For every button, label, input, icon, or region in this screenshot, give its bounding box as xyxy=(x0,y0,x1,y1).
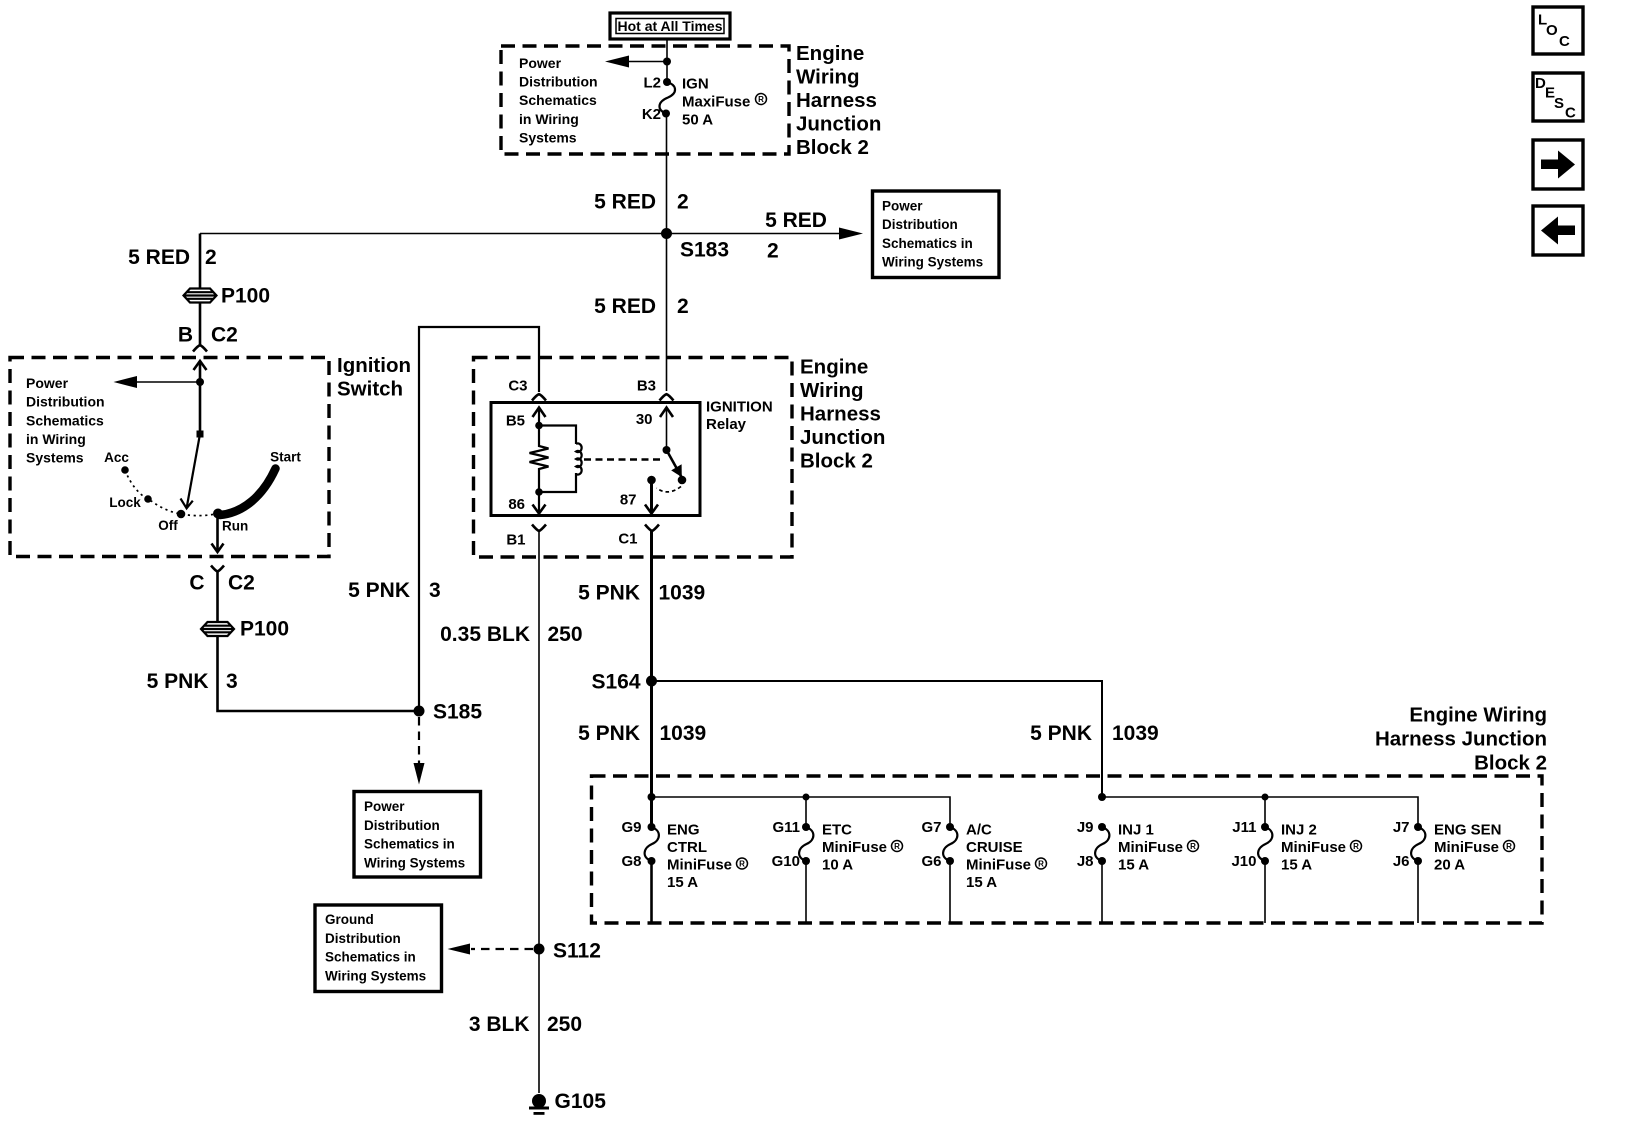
svg-text:Relay: Relay xyxy=(706,416,747,433)
arrow to power distribution reference (inside switch) xyxy=(114,376,201,388)
svg-text:O: O xyxy=(1546,22,1558,39)
wire label 5 PNK 3 (lower left) xyxy=(147,670,238,693)
pin B / connector C2 (upper) xyxy=(178,324,238,347)
node: relay coil top xyxy=(535,422,543,430)
fuse IGN MaxiFuse 50A (element) xyxy=(659,82,675,114)
svg-text:G9: G9 xyxy=(621,819,641,836)
dashed arrow: S112 to ground distribution reference box xyxy=(448,944,534,955)
label: INJ 1 MiniFuse 15 A xyxy=(1118,821,1199,873)
svg-text:3 BLK: 3 BLK xyxy=(469,1013,530,1036)
relay coil actuation link (dashed) xyxy=(584,458,660,461)
wire: P100 down and across to S185 xyxy=(218,636,420,711)
hot-at-all-times box xyxy=(610,13,730,39)
relay switch blade xyxy=(667,450,682,477)
svg-text:ENG: ENG xyxy=(667,821,700,838)
label: A/C CRUISE MiniFuse 15 A xyxy=(966,821,1047,891)
arrow to power distribution reference (left) xyxy=(605,56,667,68)
svg-text:2: 2 xyxy=(677,295,689,318)
svg-text:J10: J10 xyxy=(1231,853,1256,870)
svg-text:15 A: 15 A xyxy=(1118,856,1149,873)
svg-text:15 A: 15 A xyxy=(667,874,698,891)
wire label 5 RED 2 (left branch) xyxy=(128,246,217,269)
svg-text:G7: G7 xyxy=(921,819,941,836)
svg-text:3: 3 xyxy=(226,670,238,693)
relay switch pivot node xyxy=(663,446,671,454)
switch position dot Run xyxy=(213,509,223,519)
svg-text:Block 2: Block 2 xyxy=(800,450,873,473)
switch position dot Lock xyxy=(144,495,152,503)
svg-text:IGNITION: IGNITION xyxy=(706,399,773,416)
fuse ETC MiniFuse 10A xyxy=(799,823,813,923)
relay pin 85 male terminal xyxy=(533,408,546,426)
relay contact 87 node xyxy=(647,476,656,485)
svg-text:10 A: 10 A xyxy=(822,856,853,873)
wire: Run output with arrow to C2-C xyxy=(212,514,224,552)
female terminal B3 xyxy=(660,394,674,400)
label: ETC MiniFuse 10 A xyxy=(822,821,903,873)
label: Engine Wiring Harness Junction Block 2 (relay) xyxy=(800,356,885,473)
wire: relay B1 down (0.35 BLK 250) xyxy=(538,532,540,1094)
bus wire: riser to INJ 2 fuse xyxy=(1264,797,1266,827)
svg-text:Schematics: Schematics xyxy=(519,92,597,108)
previous-page navigation box (left arrow) xyxy=(1533,206,1583,255)
wire: S185 up and across to relay C3 xyxy=(419,327,539,711)
svg-text:5 RED: 5 RED xyxy=(128,246,190,269)
svg-text:Off: Off xyxy=(158,518,178,533)
label: IGNITION Relay xyxy=(706,399,773,434)
svg-text:G6: G6 xyxy=(921,853,941,870)
label: INJ 2 MiniFuse 15 A xyxy=(1281,821,1362,873)
svg-text:Schematics: Schematics xyxy=(26,412,104,428)
ignition switch dashed box xyxy=(10,358,329,557)
svg-text:50 A: 50 A xyxy=(682,111,713,128)
wire label 3 BLK 250 xyxy=(469,1013,582,1036)
svg-text:5 PNK: 5 PNK xyxy=(348,579,410,602)
svg-text:Ignition: Ignition xyxy=(337,354,411,377)
switch position dot Acc xyxy=(121,466,129,474)
svg-text:J11: J11 xyxy=(1232,819,1256,836)
svg-text:250: 250 xyxy=(547,1013,582,1036)
wire label 5 PNK 3 (S185 riser) xyxy=(348,579,441,602)
fuse A/C CRUISE MiniFuse 15A xyxy=(943,823,957,923)
svg-text:5 RED: 5 RED xyxy=(594,191,656,214)
svg-text:Power: Power xyxy=(26,375,69,391)
svg-text:B: B xyxy=(178,324,193,347)
node: bus junction right xyxy=(1098,793,1106,801)
wire: relay C1 down to S164 (5 PNK 1039) xyxy=(650,532,653,682)
svg-text:R: R xyxy=(1353,842,1359,851)
switch wiper square node xyxy=(197,431,204,438)
female terminal C1 xyxy=(645,525,659,532)
wire: S164 down into junction block xyxy=(650,681,653,827)
node: relay coil bottom xyxy=(535,488,543,496)
svg-text:87: 87 xyxy=(620,492,637,509)
label: ENG CTRL MiniFuse 15 A xyxy=(667,821,748,891)
female terminal C3 xyxy=(532,394,546,400)
junction block 2 dashed box (bottom) xyxy=(592,776,1543,923)
svg-text:5 PNK: 5 PNK xyxy=(1030,722,1092,745)
wire label 5 PNK 1039 (right feed) xyxy=(1030,722,1159,745)
fuse INJ 2 MiniFuse 15A xyxy=(1258,823,1272,923)
wire label 5 RED 2 (S183 to relay B3) xyxy=(594,295,689,318)
next-page navigation box (right arrow) xyxy=(1533,140,1583,189)
svg-text:Engine: Engine xyxy=(796,42,864,65)
label: IGN MaxiFuse 50 A xyxy=(682,75,767,128)
svg-text:C2: C2 xyxy=(211,324,238,347)
female terminal B1 xyxy=(532,525,546,532)
svg-text:Schematics in: Schematics in xyxy=(364,837,455,852)
svg-text:250: 250 xyxy=(548,623,583,646)
wire: P100 down to ignition switch C2 pin B xyxy=(199,302,202,345)
svg-text:Power: Power xyxy=(364,799,405,814)
svg-text:R: R xyxy=(1038,860,1044,869)
dashed box: engine wiring harness junction block 2 (fuse block) xyxy=(501,46,789,154)
relay resistor xyxy=(530,426,549,493)
svg-text:S112: S112 xyxy=(553,940,601,963)
svg-text:20 A: 20 A xyxy=(1434,856,1465,873)
svg-text:15 A: 15 A xyxy=(966,874,997,891)
svg-text:R: R xyxy=(1506,842,1512,851)
ignition relay box xyxy=(491,403,700,516)
svg-text:1039: 1039 xyxy=(659,582,706,605)
svg-text:Harness: Harness xyxy=(796,89,877,112)
wire: C2 down to P100 (lower) xyxy=(216,572,219,623)
wire: hot feed into fuse xyxy=(666,39,668,82)
node: junction at switch arrow xyxy=(196,378,204,386)
svg-text:MiniFuse: MiniFuse xyxy=(822,839,887,856)
svg-text:Schematics in: Schematics in xyxy=(882,236,973,251)
node S164 xyxy=(646,676,657,687)
reference text: power distribution schematics in wiring systems xyxy=(519,55,598,145)
svg-text:Harness Junction: Harness Junction xyxy=(1375,728,1547,751)
svg-text:B1: B1 xyxy=(506,532,525,549)
svg-text:B5: B5 xyxy=(506,413,525,430)
svg-text:C1: C1 xyxy=(618,531,637,548)
svg-text:MiniFuse: MiniFuse xyxy=(1434,839,1499,856)
dashed arrow: S185 to power distribution reference box xyxy=(414,717,425,785)
bus wire: right feed to fuses xyxy=(1102,797,1418,827)
bus wire: left feed to fuses xyxy=(652,797,951,827)
svg-text:S164: S164 xyxy=(591,671,640,694)
relay pin 30 male terminal xyxy=(660,408,673,451)
reference box: power distribution schematics in wiring systems (bottom left) xyxy=(354,792,481,878)
fuse INJ 1 MiniFuse 15A xyxy=(1095,823,1109,923)
svg-text:B3: B3 xyxy=(637,378,656,395)
svg-text:J7: J7 xyxy=(1393,819,1410,836)
svg-text:2: 2 xyxy=(767,240,779,263)
svg-text:Wiring: Wiring xyxy=(800,379,864,402)
svg-text:R: R xyxy=(739,860,745,869)
svg-text:Distribution: Distribution xyxy=(26,394,105,410)
wire: S164 branch across and down to junction block xyxy=(652,681,1103,797)
pin C / connector C2 (lower) xyxy=(189,572,255,595)
wire: S183 horizontal run to left branch xyxy=(200,233,667,235)
wire: fuse K2 down to S183 xyxy=(666,114,668,234)
svg-text:R: R xyxy=(1190,842,1196,851)
svg-text:J6: J6 xyxy=(1393,853,1410,870)
svg-text:Lock: Lock xyxy=(109,495,141,510)
svg-text:MiniFuse: MiniFuse xyxy=(667,856,732,873)
svg-text:Systems: Systems xyxy=(519,129,577,145)
svg-text:Distribution: Distribution xyxy=(364,818,440,833)
svg-text:C2: C2 xyxy=(228,572,255,595)
svg-text:INJ 1: INJ 1 xyxy=(1118,821,1154,838)
svg-text:Distribution: Distribution xyxy=(882,217,958,232)
wire label 0.35 BLK 250 xyxy=(440,623,582,646)
svg-text:G11: G11 xyxy=(772,819,800,836)
wire: S183 down to relay B3 xyxy=(666,234,668,392)
svg-text:in Wiring: in Wiring xyxy=(26,431,86,447)
svg-text:J8: J8 xyxy=(1077,853,1094,870)
switch wiper arrow to Off xyxy=(181,434,201,508)
svg-text:Block 2: Block 2 xyxy=(796,136,869,159)
svg-text:Wiring Systems: Wiring Systems xyxy=(325,968,426,983)
svg-text:K2: K2 xyxy=(642,106,661,123)
svg-text:P100: P100 xyxy=(221,285,270,308)
svg-text:P100: P100 xyxy=(240,618,289,641)
svg-text:in Wiring: in Wiring xyxy=(519,111,579,127)
svg-text:IGN: IGN xyxy=(682,75,709,92)
node S185 xyxy=(414,706,425,717)
svg-text:5 PNK: 5 PNK xyxy=(578,582,640,605)
svg-text:Switch: Switch xyxy=(337,378,403,401)
svg-text:G8: G8 xyxy=(621,853,641,870)
relay pin 86 male terminal (down) xyxy=(533,492,546,514)
svg-text:Distribution: Distribution xyxy=(519,74,598,90)
svg-text:Systems: Systems xyxy=(26,450,84,466)
svg-text:86: 86 xyxy=(508,496,525,513)
switch Start contact (thick arc) xyxy=(220,469,276,516)
svg-text:Power: Power xyxy=(519,55,562,71)
relay pin 87 male terminal (down) xyxy=(645,480,658,514)
svg-text:J9: J9 xyxy=(1077,819,1094,836)
svg-text:3: 3 xyxy=(429,579,441,602)
svg-text:Schematics in: Schematics in xyxy=(325,950,416,965)
svg-text:G105: G105 xyxy=(555,1090,607,1113)
svg-text:C: C xyxy=(1565,105,1576,122)
svg-text:MiniFuse: MiniFuse xyxy=(966,856,1031,873)
node: bus junction left xyxy=(648,793,656,801)
label: Engine Wiring Harness Junction Block 2 xyxy=(796,42,881,159)
arrow: S183 to power distribution reference (right) xyxy=(667,228,864,240)
svg-text:2: 2 xyxy=(205,246,217,269)
svg-text:L2: L2 xyxy=(643,75,661,92)
svg-text:5 PNK: 5 PNK xyxy=(578,722,640,745)
label: ENG SEN MiniFuse 20 A xyxy=(1434,821,1515,873)
svg-text:Wiring Systems: Wiring Systems xyxy=(882,255,983,270)
fuse ENG SEN MiniFuse 20A xyxy=(1411,823,1425,923)
svg-text:30: 30 xyxy=(636,411,653,428)
svg-text:1039: 1039 xyxy=(1112,722,1159,745)
svg-text:C: C xyxy=(189,572,204,595)
relay dashed box: engine wiring harness junction block 2 xyxy=(474,358,793,558)
DESC navigation box xyxy=(1533,73,1583,122)
svg-text:0.35 BLK: 0.35 BLK xyxy=(440,623,530,646)
svg-text:2: 2 xyxy=(677,191,689,214)
svg-text:S185: S185 xyxy=(433,701,482,724)
node S112 xyxy=(534,944,545,955)
svg-text:Engine: Engine xyxy=(800,356,868,379)
svg-text:CRUISE: CRUISE xyxy=(966,839,1023,856)
terminal dot K2 xyxy=(662,110,670,118)
label: Ignition Switch xyxy=(337,354,411,401)
node: junction at arrow xyxy=(663,58,671,66)
svg-text:Junction: Junction xyxy=(800,426,885,449)
svg-text:5 PNK: 5 PNK xyxy=(147,670,209,693)
svg-text:Acc: Acc xyxy=(104,450,129,465)
node S183 xyxy=(661,228,672,239)
svg-text:Hot at All Times: Hot at All Times xyxy=(617,18,722,34)
svg-text:MaxiFuse: MaxiFuse xyxy=(682,93,750,110)
svg-text:MiniFuse: MiniFuse xyxy=(1281,839,1346,856)
svg-text:15 A: 15 A xyxy=(1281,856,1312,873)
svg-text:Power: Power xyxy=(882,199,923,214)
svg-text:Junction: Junction xyxy=(796,113,881,136)
male terminal: switch feed from C2-B xyxy=(194,361,207,434)
svg-text:Distribution: Distribution xyxy=(325,931,401,946)
svg-text:Run: Run xyxy=(222,519,248,534)
bus wire: riser to ETC fuse xyxy=(805,797,807,827)
wire label 5 PNK 1039 (upper) xyxy=(578,582,705,605)
svg-text:S183: S183 xyxy=(680,239,729,262)
relay switch travel arc (dashed) xyxy=(657,487,682,492)
svg-text:ETC: ETC xyxy=(822,821,852,838)
svg-text:A/C: A/C xyxy=(966,821,992,838)
wire label 5 RED 2 (arrow to reference box) xyxy=(765,209,827,263)
svg-text:R: R xyxy=(758,95,764,104)
svg-text:R: R xyxy=(894,842,900,851)
svg-text:ENG SEN: ENG SEN xyxy=(1434,821,1502,838)
reference text: power distribution schematics in wiring systems (switch) xyxy=(26,375,105,466)
connector P100 (lower) xyxy=(201,622,234,636)
svg-text:G10: G10 xyxy=(772,853,800,870)
LOC navigation box xyxy=(1533,7,1583,54)
node: bus junction INJ 2 xyxy=(1262,794,1269,801)
svg-text:Start: Start xyxy=(270,450,301,465)
reference box: ground distribution schematics in wiring systems xyxy=(315,905,442,992)
svg-text:Engine Wiring: Engine Wiring xyxy=(1409,704,1547,727)
female terminal C2-C below switch box xyxy=(211,566,224,572)
svg-text:INJ 2: INJ 2 xyxy=(1281,821,1317,838)
svg-text:Wiring: Wiring xyxy=(796,66,860,89)
svg-text:C3: C3 xyxy=(508,378,527,395)
node: bus junction ETC xyxy=(803,794,810,801)
relay coil xyxy=(539,426,582,493)
svg-text:Ground: Ground xyxy=(325,912,374,927)
label: Engine Wiring Harness Junction Block 2 (bottom) xyxy=(1375,704,1547,775)
svg-text:CTRL: CTRL xyxy=(667,839,707,856)
fuse ENG CTRL MiniFuse 15A xyxy=(645,823,659,923)
reference box: power distribution schematics in wiring systems (right) xyxy=(873,191,1000,278)
svg-text:1039: 1039 xyxy=(660,722,707,745)
svg-text:5 RED: 5 RED xyxy=(765,209,827,232)
ground G105 xyxy=(529,1094,549,1115)
switch position dot Off xyxy=(177,510,186,519)
svg-text:Block 2: Block 2 xyxy=(1474,752,1547,775)
wire label 5 RED 2 (above S183) xyxy=(594,191,689,214)
wire label 5 PNK 1039 (left feed) xyxy=(578,722,706,745)
connector P100 (upper) xyxy=(184,289,217,303)
svg-text:S: S xyxy=(1554,95,1564,112)
female terminal at switch box top xyxy=(193,345,207,351)
svg-text:Wiring Systems: Wiring Systems xyxy=(364,855,465,870)
relay switch blade tip node xyxy=(678,476,687,485)
wire: left branch down to P100 xyxy=(199,234,202,290)
svg-text:Harness: Harness xyxy=(800,403,881,426)
svg-text:MiniFuse: MiniFuse xyxy=(1118,839,1183,856)
svg-text:5 RED: 5 RED xyxy=(594,295,656,318)
svg-text:C: C xyxy=(1559,33,1570,50)
terminal dot L2 xyxy=(663,78,671,86)
switch position arc (dotted) xyxy=(125,470,218,516)
